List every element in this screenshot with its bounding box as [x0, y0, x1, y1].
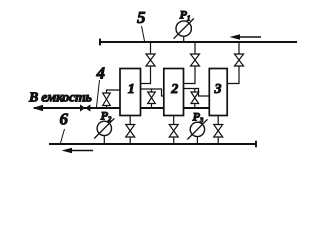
- leader line for 5: [142, 26, 145, 41]
- valve 4: [103, 93, 111, 106]
- valve on outlet pipe (solid bowtie): [80, 104, 90, 111]
- wire: box1 bottom drain: [129, 116, 131, 145]
- wire: box3 bottom drain: [217, 116, 219, 145]
- svg-text:5: 5: [137, 8, 146, 27]
- valve on drop 1: [146, 54, 155, 66]
- svg-text:P1: P1: [180, 8, 191, 23]
- valve on drop 3: [235, 54, 244, 66]
- wire: box2 bottom drain: [173, 116, 175, 145]
- vessel 1: [120, 69, 141, 116]
- wire: box1 left stub to valve 4: [107, 90, 121, 108]
- wire: drop from top pipe to box 2: [184, 42, 196, 84]
- valve under box 2: [169, 125, 178, 138]
- svg-text:1: 1: [128, 82, 135, 97]
- pressure gauge P2: [94, 118, 114, 144]
- vessel 3: [209, 69, 227, 116]
- top pipe left end tick: [99, 39, 101, 46]
- valve under box 3: [214, 125, 223, 138]
- outlet pipe to tank (В емкость line): [34, 107, 209, 109]
- wire: drop from top pipe to box 1: [141, 42, 151, 84]
- leader line for 4: [97, 80, 100, 107]
- top manifold pipe (line 5): [100, 41, 297, 43]
- wire: box2 right to inter-valve 2-3: [184, 89, 210, 109]
- pressure gauge P3: [187, 119, 207, 144]
- arrowhead to tank: [33, 105, 44, 112]
- wire: box1 right to inter-valve 1-2: [141, 89, 164, 108]
- wire: drop from top pipe to box 3: [227, 42, 239, 84]
- svg-text:3: 3: [214, 82, 222, 97]
- flow arrow out of bottom pipe: [62, 148, 94, 154]
- flow arrow into top pipe: [230, 34, 262, 40]
- svg-text:2: 2: [170, 82, 178, 97]
- pressure gauge P1: [174, 19, 194, 43]
- bottom manifold pipe (line 6): [49, 143, 256, 145]
- valve on drop 2: [191, 54, 200, 66]
- valve under box 1: [126, 125, 135, 138]
- valve between 1 and 2: [148, 92, 156, 104]
- svg-text:В емкость: В емкость: [28, 91, 92, 106]
- vessel 2: [164, 69, 184, 116]
- svg-text:P3: P3: [193, 110, 204, 125]
- svg-text:4: 4: [96, 64, 106, 83]
- svg-text:P2: P2: [101, 109, 112, 124]
- valve between 2 and 3: [191, 92, 199, 104]
- bottom pipe right end tick: [255, 141, 257, 148]
- svg-text:6: 6: [60, 110, 69, 129]
- leader line for 6: [61, 129, 65, 143]
